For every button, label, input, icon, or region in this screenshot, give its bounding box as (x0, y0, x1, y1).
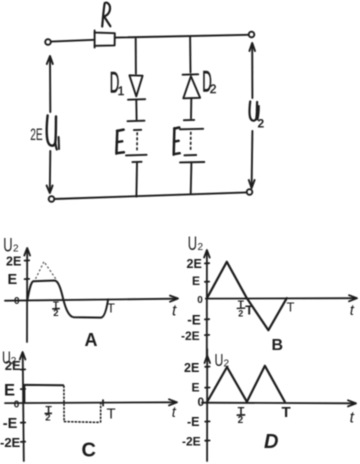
svg-text:A: A (85, 330, 98, 350)
svg-text:C: C (82, 440, 96, 462)
svg-text:B: B (272, 337, 284, 354)
svg-text:t: t (350, 302, 355, 319)
svg-text:D: D (264, 431, 278, 453)
svg-text:0: 0 (197, 295, 203, 306)
svg-text:2E: 2E (6, 255, 21, 269)
svg-text:0: 0 (14, 296, 20, 307)
svg-text:T: T (245, 303, 253, 318)
svg-text:-E: -E (187, 313, 201, 328)
svg-text:2: 2 (238, 308, 243, 318)
svg-text:2: 2 (53, 308, 58, 319)
svg-text:E: E (8, 272, 18, 288)
svg-text:E: E (192, 381, 200, 395)
svg-text:0: 0 (14, 400, 20, 411)
svg-text:1: 1 (118, 84, 125, 98)
svg-text:2: 2 (13, 244, 19, 255)
svg-text:2E: 2E (5, 358, 21, 373)
svg-text:-2E: -2E (181, 329, 200, 343)
svg-text:2: 2 (238, 415, 244, 426)
svg-text:U: U (188, 234, 197, 255)
svg-text:-E: -E (3, 416, 18, 432)
svg-text:2: 2 (258, 117, 265, 131)
svg-text:2: 2 (198, 242, 204, 253)
svg-text:T: T (287, 300, 295, 315)
svg-text:2: 2 (210, 82, 217, 96)
svg-text:t: t (350, 410, 355, 427)
svg-text:-E: -E (187, 415, 200, 429)
svg-text:T: T (282, 404, 291, 421)
svg-text:U: U (215, 351, 224, 371)
svg-text:T: T (107, 406, 116, 423)
svg-text:E: E (192, 274, 200, 288)
svg-text:0: 0 (198, 395, 205, 409)
svg-text:2E: 2E (184, 361, 199, 375)
svg-text:t: t (172, 405, 177, 421)
svg-text:2E: 2E (187, 257, 202, 271)
svg-text:2: 2 (224, 359, 230, 370)
svg-text:T: T (107, 301, 115, 316)
svg-text:U: U (3, 235, 12, 256)
svg-text:t: t (172, 303, 177, 320)
svg-text:2E: 2E (30, 124, 42, 143)
svg-text:-2E: -2E (182, 434, 201, 448)
svg-text:E: E (4, 381, 15, 399)
svg-text:-2E: -2E (0, 435, 21, 450)
